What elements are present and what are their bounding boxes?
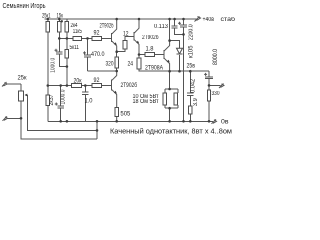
- svg-text:Каченный однотактник, 8вт х 4.: Каченный однотактник, 8вт х 4..8ом: [110, 128, 232, 136]
- svg-text:2к37: 2к37: [49, 94, 55, 106]
- svg-text:2200.0: 2200.0: [189, 24, 195, 41]
- svg-text:стаб: стаб: [221, 17, 236, 23]
- svg-text:0в: 0в: [221, 120, 229, 126]
- svg-text:0.113: 0.113: [154, 24, 169, 30]
- svg-text:1000.0: 1000.0: [60, 89, 66, 105]
- svg-text:3.9: 3.9: [193, 98, 199, 107]
- svg-text:1.8: 1.8: [146, 46, 155, 52]
- svg-text:92: 92: [94, 31, 101, 37]
- svg-text:12: 12: [123, 32, 129, 38]
- svg-text:505: 505: [120, 111, 131, 117]
- svg-text:1.0: 1.0: [85, 99, 94, 105]
- svg-text:1000.0: 1000.0: [51, 57, 57, 73]
- svg-text:2Т902б: 2Т902б: [121, 83, 138, 89]
- svg-text:320: 320: [106, 62, 115, 68]
- svg-text:470.0: 470.0: [91, 52, 105, 58]
- svg-text:330: 330: [212, 91, 221, 97]
- svg-text:25к: 25к: [18, 76, 27, 82]
- svg-text:2Т902б: 2Т902б: [100, 23, 114, 29]
- svg-text:2Т908А: 2Т908А: [145, 66, 163, 72]
- svg-text:Семьянин Игорь: Семьянин Игорь: [3, 3, 46, 10]
- svg-text:25в: 25в: [187, 63, 196, 69]
- svg-text:18 Ом 5Вт: 18 Ом 5Вт: [133, 99, 159, 105]
- svg-text:25к1: 25к1: [42, 14, 51, 20]
- svg-text:24: 24: [128, 62, 134, 68]
- svg-text:8000.0: 8000.0: [213, 48, 219, 65]
- svg-text:92: 92: [94, 78, 101, 84]
- svg-text:11к5: 11к5: [73, 29, 82, 35]
- svg-text:5к11: 5к11: [70, 45, 80, 51]
- svg-text:20к: 20к: [74, 79, 82, 85]
- svg-text:к105: к105: [188, 45, 194, 58]
- svg-text:0.042: 0.042: [191, 78, 197, 93]
- svg-text:+40в: +40в: [203, 17, 215, 23]
- svg-text:2Т902б: 2Т902б: [142, 35, 159, 41]
